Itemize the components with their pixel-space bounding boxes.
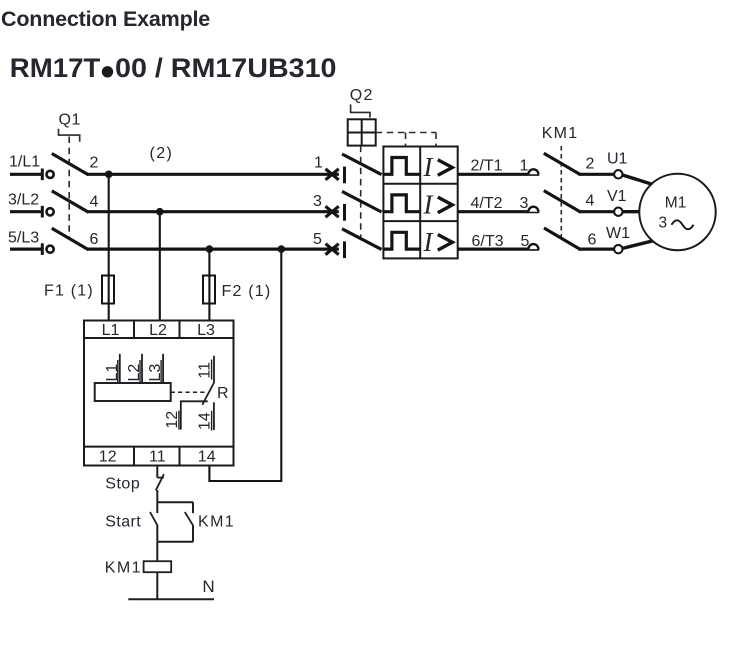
relay internal measuring block (95, 383, 171, 401)
svg-text:6: 6 (588, 232, 597, 249)
Q1 linkage bracket (59, 129, 80, 142)
svg-text:00 / RM17UB310: 00 / RM17UB310 (115, 53, 337, 83)
Q2 pole2 thermal element (382, 195, 420, 212)
svg-text:(2): (2) (150, 145, 174, 162)
svg-text:Start: Start (105, 513, 141, 530)
Q2 pole2 fixed bar (343, 204, 346, 221)
fuse F1 (102, 276, 114, 304)
svg-text:2: 2 (586, 155, 595, 172)
Q2 pole1 magnetic element I> (423, 152, 453, 182)
wire branch L1 to relay (108, 174, 110, 321)
relay internal L1 lead (119, 354, 121, 383)
svg-text:1: 1 (520, 158, 529, 175)
relay internal L1 label (rotated, underlined) (104, 360, 121, 382)
KM1 pole1 terminal arc (528, 169, 538, 174)
stop button contact (156, 474, 164, 490)
svg-text:3: 3 (659, 215, 668, 232)
relay top strip divider 2 (179, 321, 181, 339)
relay internal dashed link (171, 391, 205, 393)
Q2 linkage dashed horizontal (376, 132, 436, 134)
svg-text:11: 11 (149, 449, 166, 466)
svg-text:F2 (1): F2 (1) (222, 283, 272, 300)
wire row2 Q1 to Q2 (87, 210, 339, 213)
relay top terminal strip line (84, 337, 234, 339)
relay bottom terminal strip line (84, 446, 234, 448)
motor tilde (672, 220, 694, 229)
relay internal L3 lead (162, 354, 164, 383)
terminal W1 circle (614, 245, 622, 253)
node row2 junction (156, 208, 164, 216)
Q2 pole2 magnetic element I> (423, 189, 453, 219)
L1 terminal bar (41, 169, 44, 181)
relay contact 14 label (rotated, underlined) (197, 411, 214, 431)
svg-text:RM17T: RM17T (10, 53, 101, 83)
svg-text:4/T2: 4/T2 (471, 195, 503, 212)
KM1 pole2 blade (544, 191, 580, 212)
KM1 auxiliary contact (185, 502, 193, 542)
Q2 mechanism crossed box (348, 119, 376, 145)
L1 terminal circle (47, 171, 54, 178)
relay internal L3 label (rotated, underlined) (147, 360, 164, 382)
relay contact 12 wire (181, 401, 208, 429)
svg-text:F1 (1): F1 (1) (44, 283, 94, 300)
svg-text:M1: M1 (665, 194, 687, 211)
svg-text:4: 4 (586, 193, 595, 210)
Q2 pole1 blade (342, 154, 382, 175)
Q2 pole1 thermal element (382, 158, 420, 175)
svg-text:R: R (217, 385, 229, 402)
Q2 pole2 blade (342, 191, 382, 212)
KM1 pole3 terminal arc (528, 244, 538, 249)
Q1 linkage dashed line (68, 137, 70, 240)
svg-text:3: 3 (313, 193, 322, 210)
relay RM17 outer box (84, 321, 234, 466)
wire U1 to motor (623, 175, 653, 184)
Q2 linkage bracket (351, 104, 370, 117)
relay internal L2 lead (141, 354, 143, 383)
Q2 pole3 magnetic element I> (423, 227, 453, 257)
relay contact R blade (202, 383, 214, 405)
relay internal L2 label (rotated, underlined) (126, 360, 143, 382)
wire 4/T2 (458, 210, 540, 213)
svg-text:12: 12 (99, 449, 117, 466)
breaker Q2 body (383, 147, 457, 259)
neutral rail N (128, 598, 214, 600)
Q2 pole3 thermal element (382, 232, 420, 249)
svg-text:2: 2 (90, 154, 99, 171)
svg-text:Stop: Stop (105, 475, 140, 492)
wire branch row3 to terminal 14 (209, 249, 281, 481)
Q2 pole3 fixed bar (343, 241, 346, 258)
Q2 linkage dashed vertical below box (360, 146, 362, 238)
wire 6/T3 (458, 248, 540, 251)
svg-text:6: 6 (90, 231, 99, 248)
wire 2/T1 (458, 173, 540, 176)
Q1 pole 1 blade (52, 154, 89, 175)
wire parallel branch bottom (157, 541, 193, 543)
wire KM1 pole3 to W1 (579, 248, 615, 251)
Q2 pole3 X terminal (326, 244, 339, 255)
terminal U1 circle (614, 170, 622, 178)
heading: RM17T.00 / RM17UB310 (10, 53, 337, 83)
svg-text:Connection Example: Connection Example (1, 7, 210, 31)
svg-text:V1: V1 (607, 188, 627, 205)
relay contact 14 lead (213, 402, 215, 430)
wire V1 to motor (623, 210, 642, 213)
terminal V1 circle (614, 208, 622, 216)
relay contact common 11 lead (213, 356, 215, 383)
wire KM1 pole2 to V1 (579, 210, 615, 213)
svg-text:4: 4 (90, 193, 99, 210)
svg-text:5: 5 (313, 231, 322, 248)
L1 lead wire (10, 173, 41, 176)
wire row3 Q1 to Q2 (87, 248, 339, 251)
wire terminal 11 down (156, 466, 158, 478)
coil KM1 (144, 561, 172, 572)
Q2 linkage dashed drop to magnetic element (435, 133, 437, 147)
wire coil to N rail (156, 572, 158, 599)
Q2 pole2 X terminal (326, 206, 339, 217)
L2 terminal circle (47, 208, 54, 215)
relay contact 12 label (rotated, underlined) (164, 411, 181, 430)
wire stop to start (156, 490, 158, 502)
svg-text:L1: L1 (102, 322, 120, 339)
Q2 linkage dashed drop to thermal element (405, 133, 407, 147)
relay contact 11 label (rotated, underlined) (197, 360, 214, 380)
svg-text:N: N (202, 577, 214, 596)
wire parallel branch top (157, 501, 193, 503)
KM1 pole1 blade (544, 153, 580, 174)
wire KM1 pole1 to U1 (579, 173, 615, 176)
node row3 junction b (278, 245, 286, 253)
svg-text:W1: W1 (606, 225, 630, 242)
wire W1 to motor (623, 241, 654, 249)
svg-text:1/L1: 1/L1 (9, 154, 40, 171)
svg-text:Q1: Q1 (59, 112, 82, 129)
wire to coil (156, 542, 158, 561)
relay top strip divider 1 (133, 321, 135, 339)
svg-text:3: 3 (520, 195, 529, 212)
svg-text:KM1: KM1 (105, 559, 142, 576)
L3 lead wire (10, 248, 41, 251)
KM1 pole3 blade (544, 228, 580, 249)
svg-text:KM1: KM1 (542, 125, 579, 142)
fuse F2 (203, 276, 215, 304)
svg-text:14: 14 (198, 449, 216, 466)
L3 terminal circle (47, 246, 54, 253)
svg-text:3/L2: 3/L2 (8, 192, 39, 209)
svg-text:U1: U1 (607, 151, 628, 168)
L2 lead wire (10, 210, 41, 213)
svg-text:5/L3: 5/L3 (8, 230, 39, 247)
svg-text:Q2: Q2 (350, 87, 374, 104)
svg-text:L2: L2 (149, 322, 167, 339)
Q2 pole1 fixed bar (343, 167, 346, 184)
Q1 pole 3 blade (52, 228, 89, 249)
svg-text:6/T3: 6/T3 (472, 233, 504, 250)
wire branch L2 to relay (159, 212, 161, 321)
svg-text:KM1: KM1 (198, 513, 235, 530)
svg-text:1: 1 (314, 155, 323, 172)
wire branch L3 to relay (208, 249, 210, 321)
KM1 linkage dashed line (560, 146, 562, 238)
motor M1 circle (639, 174, 715, 250)
start button contact (150, 502, 158, 542)
relay bottom strip divider 1 (133, 447, 135, 466)
wire row1 Q1 to Q2 (87, 173, 339, 176)
svg-text:L3: L3 (197, 322, 215, 339)
svg-text:2/T1: 2/T1 (471, 158, 503, 175)
Q2 pole3 blade (342, 229, 382, 250)
relay bottom strip divider 2 (179, 447, 181, 466)
Q1 pole 2 blade (52, 191, 89, 212)
L3 terminal bar (41, 243, 44, 255)
node row1 junction (105, 171, 113, 179)
node row3 junction a (206, 245, 214, 253)
KM1 pole2 terminal arc (528, 207, 538, 212)
L2 terminal bar (41, 206, 44, 218)
Q2 pole1 X terminal (326, 169, 339, 180)
